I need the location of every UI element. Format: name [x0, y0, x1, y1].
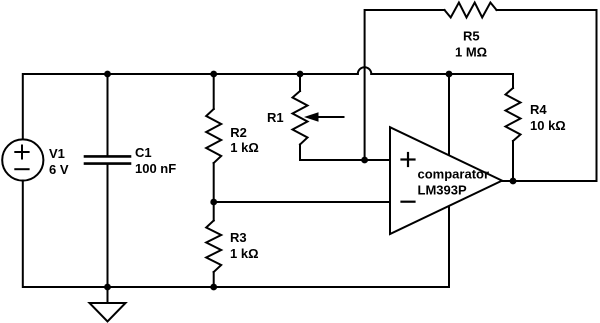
svg-text:V1: V1: [49, 146, 65, 161]
resistor R4: [506, 74, 521, 181]
svg-text:comparator: comparator: [418, 167, 490, 182]
node dot power top: [446, 71, 453, 78]
svg-text:R1: R1: [267, 110, 284, 125]
node dot R2 R3 junction: [210, 199, 217, 206]
wire top rail right segment (hop to R4 corner): [371, 73, 513, 75]
node dot plus input: [361, 157, 368, 164]
potentiometer R1: [293, 74, 391, 160]
wire output (tip to right rail): [502, 180, 597, 182]
svg-text:R3: R3: [230, 230, 247, 245]
wire hop over R5 left leg: [358, 67, 372, 74]
node dot output: [510, 178, 517, 185]
wire comparator power line (top rail through body to bottom rail): [448, 74, 450, 287]
svg-text:6 V: 6 V: [49, 162, 69, 177]
svg-text:R5: R5: [463, 29, 480, 44]
resistor R3: [206, 202, 221, 287]
svg-text:1 kΩ: 1 kΩ: [230, 140, 258, 155]
resistor R5: [366, 3, 597, 18]
svg-text:R4: R4: [530, 102, 547, 117]
voltage source V1: [2, 139, 43, 180]
wire left rail bottom (V1 to bottom rail): [23, 181, 108, 288]
resistor R2: [206, 74, 221, 202]
node dot R3 bottom: [210, 284, 217, 291]
node dot R2 top: [210, 71, 217, 78]
svg-text:100 nF: 100 nF: [135, 161, 176, 176]
node dot ground junction: [104, 284, 111, 291]
svg-text:1 MΩ: 1 MΩ: [455, 45, 487, 60]
svg-text:C1: C1: [135, 145, 152, 160]
wire right rail (R5 right leg down to output): [513, 10, 597, 181]
potentiometer R1 wiper arrow: [304, 112, 344, 122]
wire minus input (R2/R3 junction to comparator): [214, 201, 390, 203]
svg-text:10 kΩ: 10 kΩ: [530, 118, 566, 133]
wire R5 left leg (top wire down through hop to plus-input wire): [364, 10, 366, 160]
svg-text:1 kΩ: 1 kΩ: [230, 246, 259, 261]
svg-text:LM393P: LM393P: [418, 183, 467, 198]
node dot C1 top: [104, 71, 111, 78]
wire top rail left segment (left rail to hop): [23, 74, 358, 139]
capacitor C1: [85, 74, 130, 287]
node dot R1 top: [297, 71, 304, 78]
op-amp U1 comparator LM393P: [390, 127, 502, 234]
wire bottom rail: [108, 286, 450, 288]
svg-text:R2: R2: [230, 125, 247, 140]
ground: [90, 287, 126, 322]
